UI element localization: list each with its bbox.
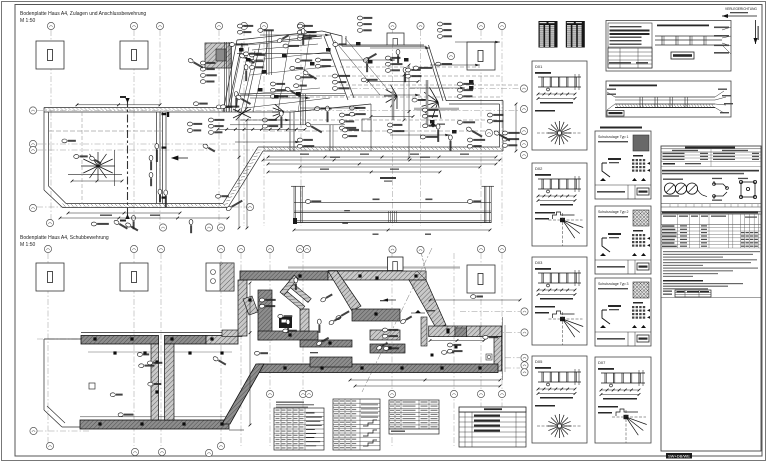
panel Schubzulage Typ 1 xyxy=(595,131,651,199)
labels lower plan xyxy=(320,293,333,303)
main table xyxy=(661,214,761,248)
cutting list table 1 (dark) xyxy=(539,21,558,48)
diagonal connector band xyxy=(222,364,264,424)
bubble right bar xyxy=(485,129,492,136)
Regeldetail panel 1 xyxy=(606,21,731,72)
svg-text:D02: D02 xyxy=(535,166,543,171)
X junction mark xyxy=(233,107,251,120)
band E horizontal xyxy=(429,326,502,337)
shear band vertical (left bar) xyxy=(151,344,159,420)
thick gray cut bars xyxy=(426,80,429,126)
svg-text:Schubzulage Typ 1: Schubzulage Typ 1 xyxy=(598,135,629,139)
svg-text:D05: D05 xyxy=(535,359,543,364)
wall hatch ticks xyxy=(44,108,227,111)
section labels xyxy=(380,177,396,179)
section cut line lower plan xyxy=(362,248,432,392)
svg-text:M 1:50: M 1:50 xyxy=(20,18,36,24)
vertical dims center xyxy=(408,64,411,160)
wing interior lattice xyxy=(225,34,521,120)
bold note under Regeldetail 2 xyxy=(600,127,642,129)
north arrow mark lower plan xyxy=(383,298,388,301)
general notes text xyxy=(663,251,760,252)
height diamond xyxy=(431,123,436,128)
section bottom-left corner blob xyxy=(293,218,297,224)
svg-text:Schubzulage Typ 3: Schubzulage Typ 3 xyxy=(598,282,629,286)
label stacks center xyxy=(357,16,372,20)
section dim line xyxy=(293,229,492,232)
label stacks right/other xyxy=(502,131,519,135)
rotated labels left bar xyxy=(149,155,153,170)
arrow marker left bar xyxy=(172,156,188,160)
svg-text:Bodenplatte Haus A4, Schubbewe: Bodenplatte Haus A4, Schubbewehrung xyxy=(20,235,109,241)
fan symbol center xyxy=(384,85,397,109)
fan symbol right bar corner xyxy=(421,87,441,118)
long bottom band right section xyxy=(258,364,498,373)
bent bar glyph 1 xyxy=(713,181,729,199)
main table header bar xyxy=(661,211,761,214)
panel Schubzulage Typ 3 xyxy=(595,278,651,346)
svg-text:M 1:50: M 1:50 xyxy=(20,242,36,248)
lower plan grid lines xyxy=(37,253,520,446)
height mark symbol xyxy=(415,310,421,313)
cutting list table 2 (dark) xyxy=(566,21,585,48)
elevator pit blob xyxy=(279,317,292,328)
vertical dim right of plan xyxy=(515,103,518,153)
cells row xyxy=(661,204,761,207)
svg-text:Bodenplatte Haus A4, Zulagen u: Bodenplatte Haus A4, Zulagen und Anschlu… xyxy=(20,11,146,17)
label stacks wing xyxy=(200,61,215,65)
Regeldetail panel 2 xyxy=(606,81,731,117)
Biegeformen mesh circles xyxy=(663,179,683,180)
panel Schubzulage Typ 2 xyxy=(595,206,651,274)
bottom table T3 xyxy=(389,400,439,429)
detail panel D05 xyxy=(532,356,587,443)
shear band bottom (left bar) xyxy=(80,416,229,418)
column C4 lower plan xyxy=(467,265,495,293)
detail panel D01 xyxy=(532,61,587,150)
column C1 lower plan xyxy=(36,263,64,291)
small diag band left of core xyxy=(243,296,258,315)
column C3 lower plan (hatched) xyxy=(206,263,234,291)
wing diagonal band left xyxy=(328,271,361,311)
lower plan dim lines xyxy=(249,282,252,427)
svg-text:VERLEGERICHTUNG: VERLEGERICHTUNG xyxy=(725,7,757,11)
shear band top (left bar) xyxy=(81,332,238,334)
comb fingers xyxy=(352,309,400,321)
connector band left bar to wing xyxy=(238,280,247,336)
column C2 top plan xyxy=(120,41,148,69)
lower plan thin outline xyxy=(44,339,244,430)
interior line left bar lower xyxy=(88,351,232,353)
svg-text:Schubzulage Typ 2: Schubzulage Typ 2 xyxy=(598,210,629,214)
svg-text:D01: D01 xyxy=(535,64,543,69)
svg-text:SW+DB/WE: SW+DB/WE xyxy=(668,454,690,459)
column C3 top plan (hatched) xyxy=(205,43,231,68)
section strip Schnitt 1-1 xyxy=(291,186,494,223)
right edge vertical band xyxy=(494,337,502,371)
mitred corner + leader xyxy=(417,271,426,280)
dim rows below right bar xyxy=(267,156,498,159)
small table bottom xyxy=(675,290,711,297)
corner hook marks xyxy=(162,112,170,199)
fine dim row wing xyxy=(217,128,307,131)
entrance box on wing top xyxy=(387,33,404,45)
single labels top plan xyxy=(234,92,238,108)
detail panel D02 xyxy=(532,163,587,246)
svg-text:D03: D03 xyxy=(535,260,543,265)
bottom table T2 xyxy=(333,399,380,450)
dense black blobs wing xyxy=(262,70,267,74)
detail panel D03 xyxy=(532,257,587,345)
steel list panel xyxy=(661,146,761,451)
top plan outline walls xyxy=(44,31,503,208)
black dots on shear bands xyxy=(93,274,481,425)
hatched strip right of comb xyxy=(421,317,427,346)
dimension lines top plan xyxy=(76,103,162,106)
column C4 top plan xyxy=(467,42,495,70)
top plan bottom bubbles xyxy=(159,224,166,231)
star symbol left bar xyxy=(81,152,115,180)
column C2 lower plan xyxy=(120,263,148,291)
column C1 top plan xyxy=(36,41,64,69)
wing top band xyxy=(240,271,328,280)
lower plan grid bubbles top row xyxy=(44,245,51,252)
svg-text:D07: D07 xyxy=(598,360,606,365)
small interior box xyxy=(362,119,371,131)
bottom stamp text xyxy=(666,453,692,459)
leader lines with arrows xyxy=(235,34,500,143)
lower plan grid bubbles right stack xyxy=(521,308,528,315)
core complex xyxy=(258,290,272,340)
entrance box lower plan xyxy=(388,257,404,271)
wing horizontal wall lines xyxy=(230,30,345,151)
rotated room walls xyxy=(280,275,316,310)
label stack wall xyxy=(187,122,202,126)
bottom table T1 (Schneidliste) xyxy=(274,408,324,450)
section cut line 1-1 xyxy=(127,99,129,218)
inner dashed line left bar xyxy=(81,112,83,204)
lower plan grid bubbles bottom xyxy=(131,448,138,455)
fan symbol wing (points left) xyxy=(272,104,284,119)
wing diagonal band right xyxy=(409,280,446,328)
bottom table T4 (Pos list) xyxy=(459,412,526,447)
top plan grid lines xyxy=(37,30,520,226)
small square mark left bar xyxy=(89,383,95,389)
detail panel D07 xyxy=(595,357,651,443)
stirrup glyph xyxy=(739,180,756,198)
top plan grid bubbles xyxy=(47,22,54,29)
